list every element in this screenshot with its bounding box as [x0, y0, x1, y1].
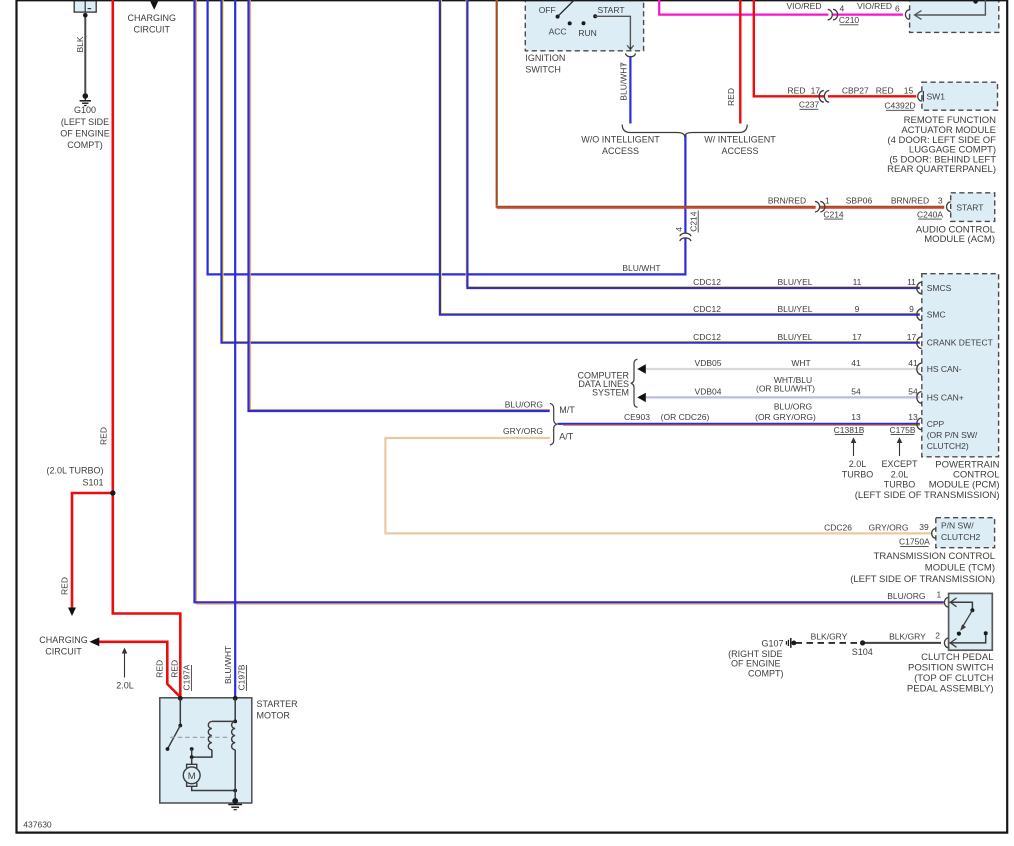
svg-text:4: 4	[674, 227, 684, 232]
svg-text:BRN/RED: BRN/RED	[768, 195, 806, 205]
svg-text:CE903: CE903	[624, 412, 650, 422]
svg-text:OFF: OFF	[539, 5, 556, 15]
pin receptacle TCM	[932, 529, 936, 539]
svg-text:VIO/RED: VIO/RED	[787, 1, 822, 11]
svg-text:(LEFT SIDE: (LEFT SIDE	[61, 117, 109, 127]
svg-text:BLU/WHT: BLU/WHT	[619, 62, 629, 100]
ignition switch contacts OFF ACC RUN START	[556, 15, 560, 19]
module SW1 box	[922, 82, 998, 110]
svg-text:GRY/ORG: GRY/ORG	[503, 426, 543, 436]
svg-text:MODULE (TCM): MODULE (TCM)	[925, 562, 995, 573]
svg-text:C197B: C197B	[237, 664, 247, 690]
wire BRN/RED to ACM	[496, 0, 498, 206]
svg-text:CIRCUIT: CIRCUIT	[134, 25, 171, 35]
solenoid pull-in coil	[208, 721, 212, 749]
svg-text:C210: C210	[839, 15, 860, 25]
svg-text:(LEFT SIDE OF TRANSMISSION): (LEFT SIDE OF TRANSMISSION)	[850, 574, 995, 585]
starter case ground	[232, 798, 238, 804]
svg-text:BLU/YEL: BLU/YEL	[778, 332, 813, 342]
solenoid hold-in coil	[232, 721, 236, 749]
svg-text:CLUTCH2): CLUTCH2)	[927, 441, 969, 451]
svg-text:ACC: ACC	[549, 27, 567, 37]
svg-text:BLK/GRY: BLK/GRY	[889, 632, 926, 642]
svg-text:1: 1	[825, 195, 830, 205]
pin receptacle HS CAN-	[917, 363, 922, 375]
keyless module box (top right, partial)	[910, 0, 999, 32]
svg-text:11: 11	[907, 277, 916, 287]
svg-text:CHARGING: CHARGING	[39, 635, 88, 645]
svg-text:CDC12: CDC12	[693, 304, 721, 314]
svg-text:STARTER: STARTER	[257, 699, 299, 709]
svg-text:4: 4	[840, 3, 845, 13]
wire BLU/ORG (OR GRY/ORG) CPP merged	[558, 423, 920, 425]
wire BLK/GRY G107 to S104 (dashed)	[796, 642, 863, 644]
svg-text:C175B: C175B	[890, 425, 916, 435]
svg-text:CPP: CPP	[927, 419, 945, 429]
svg-text:START: START	[597, 5, 624, 15]
svg-text:OF ENGINE: OF ENGINE	[60, 128, 110, 138]
svg-text:BLU/ORG: BLU/ORG	[887, 591, 925, 601]
svg-text:CDC12: CDC12	[693, 277, 721, 287]
svg-text:S101: S101	[82, 478, 103, 488]
svg-text:TURBO: TURBO	[884, 480, 916, 490]
svg-text:HS CAN-: HS CAN-	[927, 364, 962, 374]
svg-text:3: 3	[938, 195, 943, 205]
svg-text:BLU/ORG: BLU/ORG	[505, 399, 543, 409]
ignition switch box	[525, 0, 643, 51]
svg-text:CIRCUIT: CIRCUIT	[45, 647, 82, 657]
svg-text:11: 11	[853, 277, 862, 287]
svg-text:BLU/ORG: BLU/ORG	[774, 401, 812, 411]
svg-text:PEDAL ASSEMBLY): PEDAL ASSEMBLY)	[907, 683, 994, 694]
svg-text:BLK/GRY: BLK/GRY	[811, 632, 848, 642]
svg-text:COMPT): COMPT)	[67, 140, 103, 150]
svg-text:POSITION SWITCH: POSITION SWITCH	[908, 662, 994, 673]
svg-text:RED: RED	[170, 660, 180, 678]
wire WHT/BLU HS CAN+	[646, 396, 920, 398]
wire BLU/WHT 7 from ignition	[629, 56, 631, 124]
keyless module internal switch	[973, 0, 978, 4]
arrow to charging circuit (top)	[150, 1, 158, 10]
svg-text:RED: RED	[876, 85, 894, 95]
svg-text:CLUTCH PEDAL: CLUTCH PEDAL	[921, 652, 993, 663]
pin receptacle PCM SMCS	[917, 282, 922, 294]
svg-text:CBP27: CBP27	[842, 85, 869, 95]
svg-text:2.0L: 2.0L	[891, 469, 909, 479]
svg-text:(2.0L TURBO): (2.0L TURBO)	[46, 466, 103, 476]
svg-text:SYSTEM: SYSTEM	[592, 387, 629, 397]
ignition switch rotor blade	[558, 0, 575, 17]
svg-text:CDC12: CDC12	[693, 332, 721, 342]
motor return wire	[192, 786, 236, 790]
svg-text:6: 6	[895, 3, 900, 13]
brace computer data lines	[631, 359, 638, 407]
svg-text:CRANK DETECT: CRANK DETECT	[927, 338, 993, 348]
svg-text:A/T: A/T	[559, 432, 574, 442]
svg-text:SWITCH: SWITCH	[525, 65, 561, 75]
pin receptacle SW1	[918, 92, 922, 102]
svg-text:BLU/YEL: BLU/YEL	[778, 304, 813, 314]
arrow left to charging circuit	[89, 637, 99, 646]
starter pin C197A	[178, 696, 183, 701]
svg-text:RED: RED	[98, 427, 108, 445]
pin 2 receptacle	[944, 638, 948, 648]
svg-text:GRY/ORG: GRY/ORG	[869, 522, 909, 532]
svg-text:VDB04: VDB04	[695, 387, 722, 397]
svg-text:2: 2	[935, 630, 940, 640]
svg-text:MODULE (ACM): MODULE (ACM)	[924, 234, 995, 245]
svg-text:HS CAN+: HS CAN+	[927, 392, 964, 402]
pin receptacle PCM SMC	[917, 309, 922, 321]
svg-text:RED: RED	[155, 660, 165, 678]
arrow down to charging circuit	[68, 608, 76, 617]
wire RED main feed from battery	[112, 0, 115, 493]
svg-text:(OR BLU/WHT): (OR BLU/WHT)	[756, 384, 815, 394]
svg-text:COMPT): COMPT)	[748, 668, 784, 678]
svg-text:C1750A: C1750A	[899, 537, 930, 547]
wire WHT HS CAN-	[646, 368, 920, 370]
svg-text:C214: C214	[823, 209, 844, 219]
svg-text:BLU/YEL: BLU/YEL	[778, 277, 813, 287]
svg-text:TURBO: TURBO	[842, 469, 874, 479]
starter pin C197B	[233, 696, 238, 701]
svg-text:9: 9	[855, 304, 860, 314]
svg-text:2.0L: 2.0L	[849, 459, 867, 469]
svg-text:WHT: WHT	[791, 358, 810, 368]
svg-text:BLU/WHT: BLU/WHT	[622, 263, 660, 273]
wire BLU/WHT to starter C197B	[234, 0, 236, 697]
wire GRY/ORG A/T loop to TCM	[385, 438, 932, 533]
wire BLU/ORG to clutch pedal position switch	[195, 0, 197, 604]
svg-text:TRANSMISSION CONTROL: TRANSMISSION CONTROL	[874, 551, 995, 562]
coil return to ground	[234, 750, 236, 801]
svg-text:54: 54	[851, 387, 861, 397]
svg-text:VDB05: VDB05	[695, 358, 722, 368]
starter solenoid switch	[179, 698, 181, 725]
pin receptacle HS CAN+	[917, 392, 922, 404]
wire VIO/RED keyless	[659, 0, 903, 15]
svg-text:MOTOR: MOTOR	[257, 710, 291, 720]
coil to motor junction	[192, 750, 212, 757]
svg-text:M: M	[188, 771, 196, 782]
svg-text:2.0L: 2.0L	[116, 680, 134, 690]
svg-text:CLUTCH2: CLUTCH2	[941, 532, 980, 542]
svg-text:EXCEPT: EXCEPT	[881, 459, 918, 469]
module ACM START box	[951, 193, 995, 222]
svg-text:SMCS: SMCS	[927, 283, 952, 293]
svg-text:W/O INTELLIGENT: W/O INTELLIGENT	[581, 135, 660, 145]
module PCM box	[922, 274, 999, 457]
module TCM P/N SW box	[936, 518, 995, 548]
svg-text:M/T: M/T	[559, 405, 575, 415]
svg-text:13: 13	[908, 412, 918, 422]
svg-text:RED: RED	[788, 85, 806, 95]
svg-text:(TOP OF CLUTCH: (TOP OF CLUTCH	[914, 673, 993, 684]
svg-text:SBP06: SBP06	[846, 195, 873, 205]
svg-text:C197A: C197A	[182, 664, 192, 690]
svg-text:ACCESS: ACCESS	[721, 146, 758, 156]
svg-text:17: 17	[852, 332, 862, 342]
solenoid linkage (dashed)	[170, 736, 230, 738]
wire BLK battery to ground	[84, 15, 86, 95]
brace w/o vs w/ intelligent access	[622, 125, 747, 138]
solenoid coil feed from C197B	[234, 698, 236, 721]
splice S104	[860, 640, 865, 645]
svg-text:RED: RED	[59, 577, 69, 595]
svg-text:START: START	[956, 202, 983, 212]
brace M/T A/T merge	[550, 403, 557, 445]
clutch pin arrows	[950, 598, 956, 607]
wire BLK/GRY S104 to clutch switch	[863, 642, 941, 644]
splice S101	[110, 490, 115, 495]
svg-text:G107: G107	[761, 639, 783, 649]
svg-text:W/ INTELLIGENT: W/ INTELLIGENT	[704, 135, 776, 145]
wire RED w/ intelligent access	[739, 0, 741, 124]
starter motor box	[160, 698, 252, 803]
ignition output receptacle	[626, 53, 636, 56]
label 2.0L with up arrow	[124, 652, 126, 678]
svg-text:15: 15	[904, 85, 914, 95]
svg-text:C214: C214	[688, 211, 698, 232]
wire RED branch to charging circuit (left)	[72, 493, 113, 608]
svg-text:13: 13	[851, 412, 861, 422]
svg-text:REAR QUARTERPANEL): REAR QUARTERPANEL)	[887, 164, 996, 175]
svg-text:(OR GRY/ORG): (OR GRY/ORG)	[755, 412, 816, 422]
svg-text:BRN/RED: BRN/RED	[891, 195, 929, 205]
svg-text:SMC: SMC	[927, 310, 946, 320]
svg-text:S104: S104	[852, 647, 873, 657]
wire BLU/YEL crank detect	[222, 0, 224, 341]
ground G107	[792, 641, 797, 646]
connector C214 inline on vertical (pin 4)	[683, 233, 687, 238]
svg-text:CDC26: CDC26	[824, 522, 852, 532]
wire BLU/YEL SMC	[440, 0, 442, 313]
motor M	[187, 764, 197, 768]
svg-text:39: 39	[919, 522, 929, 532]
svg-text:17: 17	[907, 332, 917, 342]
ignition START output with arrow	[595, 16, 630, 49]
ground G100	[83, 93, 89, 99]
clutch pedal position switch box	[949, 593, 993, 650]
svg-text:P/N SW/: P/N SW/	[941, 521, 974, 531]
pin 6 receptacle	[905, 10, 909, 20]
svg-text:C1381B: C1381B	[834, 425, 865, 435]
wire RED to SW1	[754, 0, 917, 96]
wire RED to starter C197A	[113, 493, 181, 697]
svg-text:1: 1	[937, 590, 942, 600]
svg-text:(OR P/N SW/: (OR P/N SW/	[927, 430, 978, 440]
wire BLU/YEL SMCS	[465, 0, 467, 287]
svg-text:OF ENGINE: OF ENGINE	[731, 659, 781, 669]
wire BLU/ORG M/T branch	[249, 0, 251, 410]
pin receptacle CPP	[917, 418, 922, 430]
svg-text:SW1: SW1	[927, 91, 946, 101]
svg-text:C4392D: C4392D	[884, 101, 915, 111]
clutch switch internal contacts	[950, 602, 973, 608]
svg-text:ACCESS: ACCESS	[602, 146, 639, 156]
svg-text:437630: 437630	[23, 819, 52, 829]
svg-text:9: 9	[909, 304, 914, 314]
svg-text:IGNITION: IGNITION	[525, 53, 565, 63]
svg-text:BLU/WHT: BLU/WHT	[223, 646, 233, 684]
svg-text:41: 41	[851, 358, 861, 368]
pin receptacle PCM CRANK DETECT	[917, 337, 922, 349]
wire BLU/WHT ignition feed via C214	[208, 0, 686, 274]
wire RED 2.0L branch to charging circuit	[99, 642, 181, 697]
svg-text:G100: G100	[74, 105, 96, 115]
svg-text:(OR CDC26): (OR CDC26)	[661, 412, 710, 422]
svg-text:C240A: C240A	[917, 209, 943, 219]
svg-text:RED: RED	[726, 88, 736, 106]
svg-text:RUN: RUN	[578, 28, 596, 38]
svg-text:(LEFT SIDE OF TRANSMISSION): (LEFT SIDE OF TRANSMISSION)	[855, 490, 1000, 501]
svg-text:CHARGING: CHARGING	[128, 13, 177, 23]
battery B+ (partial, top left)	[74, 0, 96, 12]
svg-text:VIO/RED: VIO/RED	[857, 1, 892, 11]
svg-text:BLK: BLK	[75, 36, 85, 52]
pin receptacle ACM	[947, 202, 951, 212]
svg-text:C237: C237	[799, 100, 820, 110]
svg-text:(RIGHT SIDE: (RIGHT SIDE	[728, 649, 782, 659]
